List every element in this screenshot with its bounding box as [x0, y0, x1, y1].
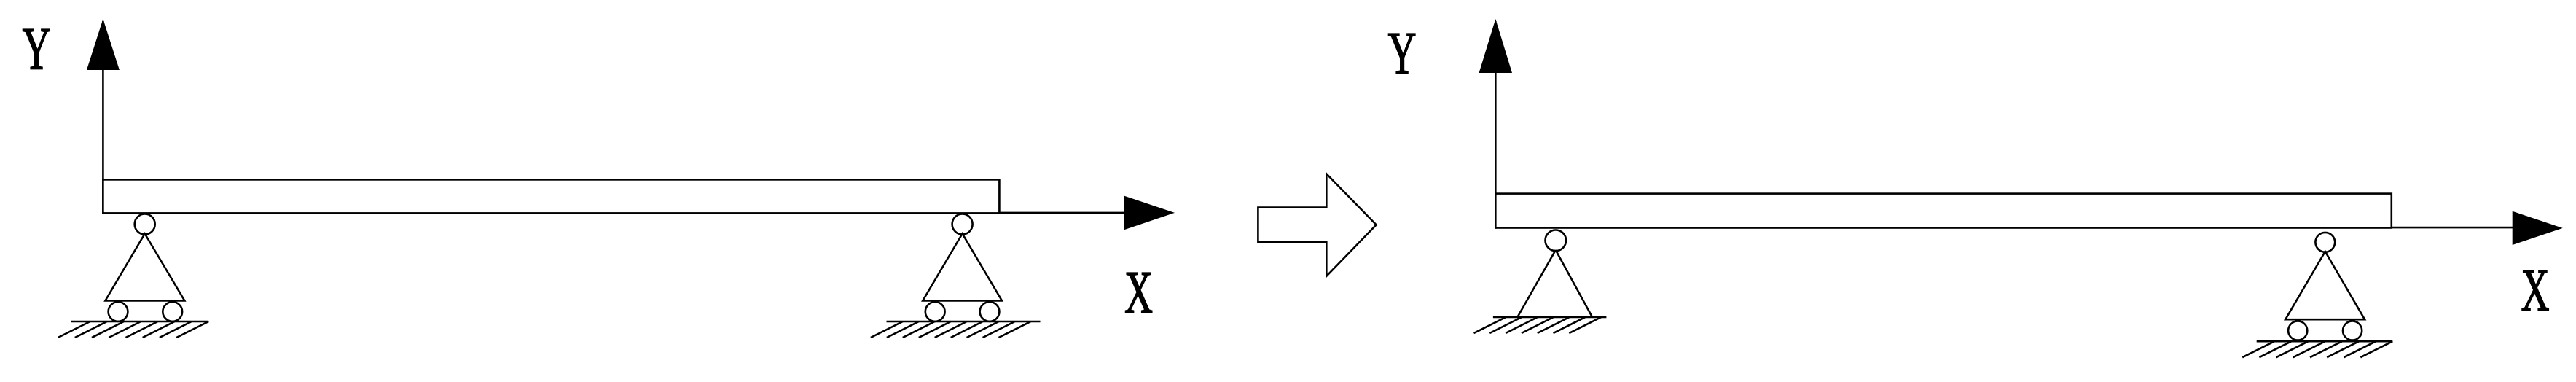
left support ground hatching (right diagram) — [1474, 317, 1602, 333]
left support leg right (right diagram) — [1556, 250, 1593, 318]
right support ground hatching (left diagram) — [871, 321, 1031, 338]
left support triangle (left diagram) — [106, 234, 185, 301]
right support roller 1 (left diagram) — [925, 302, 945, 321]
right support roller 2 (right diagram) — [2343, 321, 2362, 340]
svg-text:X: X — [1124, 260, 1153, 326]
right support roller 2 (left diagram) — [980, 302, 1000, 321]
right support ground line (right diagram) — [2257, 340, 2393, 343]
svg-text:X: X — [2521, 257, 2550, 324]
svg-text:Y: Y — [1388, 20, 1417, 87]
X axis arrowhead (left diagram) — [1124, 196, 1175, 230]
left support ground line (right diagram) — [1493, 316, 1607, 319]
right support ground line (left diagram) — [887, 321, 1041, 323]
right support roller 1 (right diagram) — [2288, 321, 2307, 340]
beam (right diagram) — [1495, 194, 2392, 228]
left support roller 1 (left diagram) — [109, 302, 128, 321]
Y axis line (left diagram) — [102, 21, 104, 214]
Y axis arrowhead (left diagram) — [87, 19, 120, 70]
left support hinge circle (left diagram) — [135, 214, 155, 235]
right support triangle (right diagram) — [2285, 252, 2365, 319]
left support roller 2 (left diagram) — [163, 302, 182, 321]
right support hinge circle (left diagram) — [952, 214, 973, 235]
left support ground hatching (left diagram) — [58, 321, 209, 338]
Y axis line (right diagram) — [1495, 21, 1497, 229]
svg-text:Y: Y — [23, 16, 51, 82]
beam (left diagram) — [103, 179, 999, 213]
X axis line (left diagram) — [103, 212, 1127, 214]
right support hinge circle (right diagram) — [2315, 233, 2335, 252]
left support leg left (right diagram) — [1517, 250, 1556, 318]
left support ground line (left diagram) — [71, 321, 209, 323]
left support hinge circle (right diagram) — [1546, 230, 1567, 252]
X axis line (right diagram) — [1495, 227, 2514, 229]
right support triangle (left diagram) — [923, 234, 1002, 301]
Y axis arrowhead (right diagram) — [1479, 19, 1512, 73]
right support ground hatching (right diagram) — [2242, 341, 2392, 357]
transformation arrow (middle) — [1258, 174, 1376, 276]
X axis arrowhead (right diagram) — [2513, 211, 2563, 245]
